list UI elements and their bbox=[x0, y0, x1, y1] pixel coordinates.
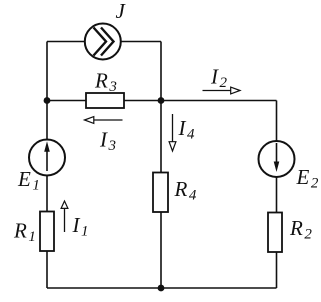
resistor R4 bbox=[153, 173, 168, 213]
resistor R1 bbox=[40, 212, 54, 252]
current arrow I2 bbox=[203, 87, 241, 94]
wire middle vertical branch bbox=[160, 42, 162, 289]
voltage source E2 bbox=[259, 141, 295, 177]
wire left vertical branch bbox=[46, 42, 48, 289]
wire R3 branch horizontal bbox=[47, 100, 161, 102]
current arrow I3 bbox=[85, 117, 123, 124]
node B junction dot middle bbox=[158, 97, 165, 104]
resistor R3 bbox=[86, 93, 124, 108]
wire right vertical branch bbox=[276, 101, 278, 289]
current source J bbox=[85, 24, 121, 60]
wire top branch (node1 to node2 via J) bbox=[47, 41, 161, 43]
wire bottom branch bbox=[47, 287, 277, 289]
voltage source E1 bbox=[29, 140, 65, 176]
wire I2 branch horizontal bbox=[161, 100, 277, 102]
node C junction dot bottom bbox=[158, 285, 165, 292]
current arrow I1 bbox=[61, 201, 68, 232]
current arrow I4 bbox=[169, 114, 176, 151]
node A junction dot left bbox=[44, 97, 51, 104]
resistor R2 bbox=[268, 213, 282, 253]
